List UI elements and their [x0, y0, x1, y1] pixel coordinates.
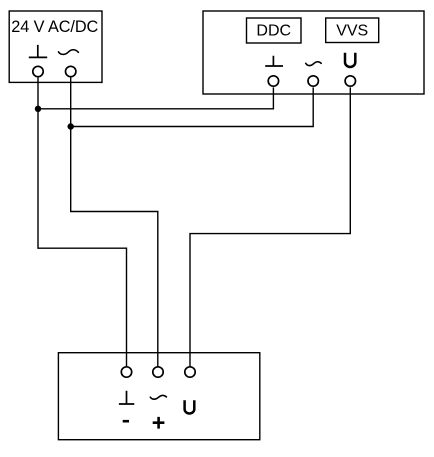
svg-text:DDC: DDC	[256, 23, 291, 40]
svg-text:VVS: VVS	[336, 23, 368, 40]
svg-text:24 V AC/DC: 24 V AC/DC	[11, 18, 98, 36]
